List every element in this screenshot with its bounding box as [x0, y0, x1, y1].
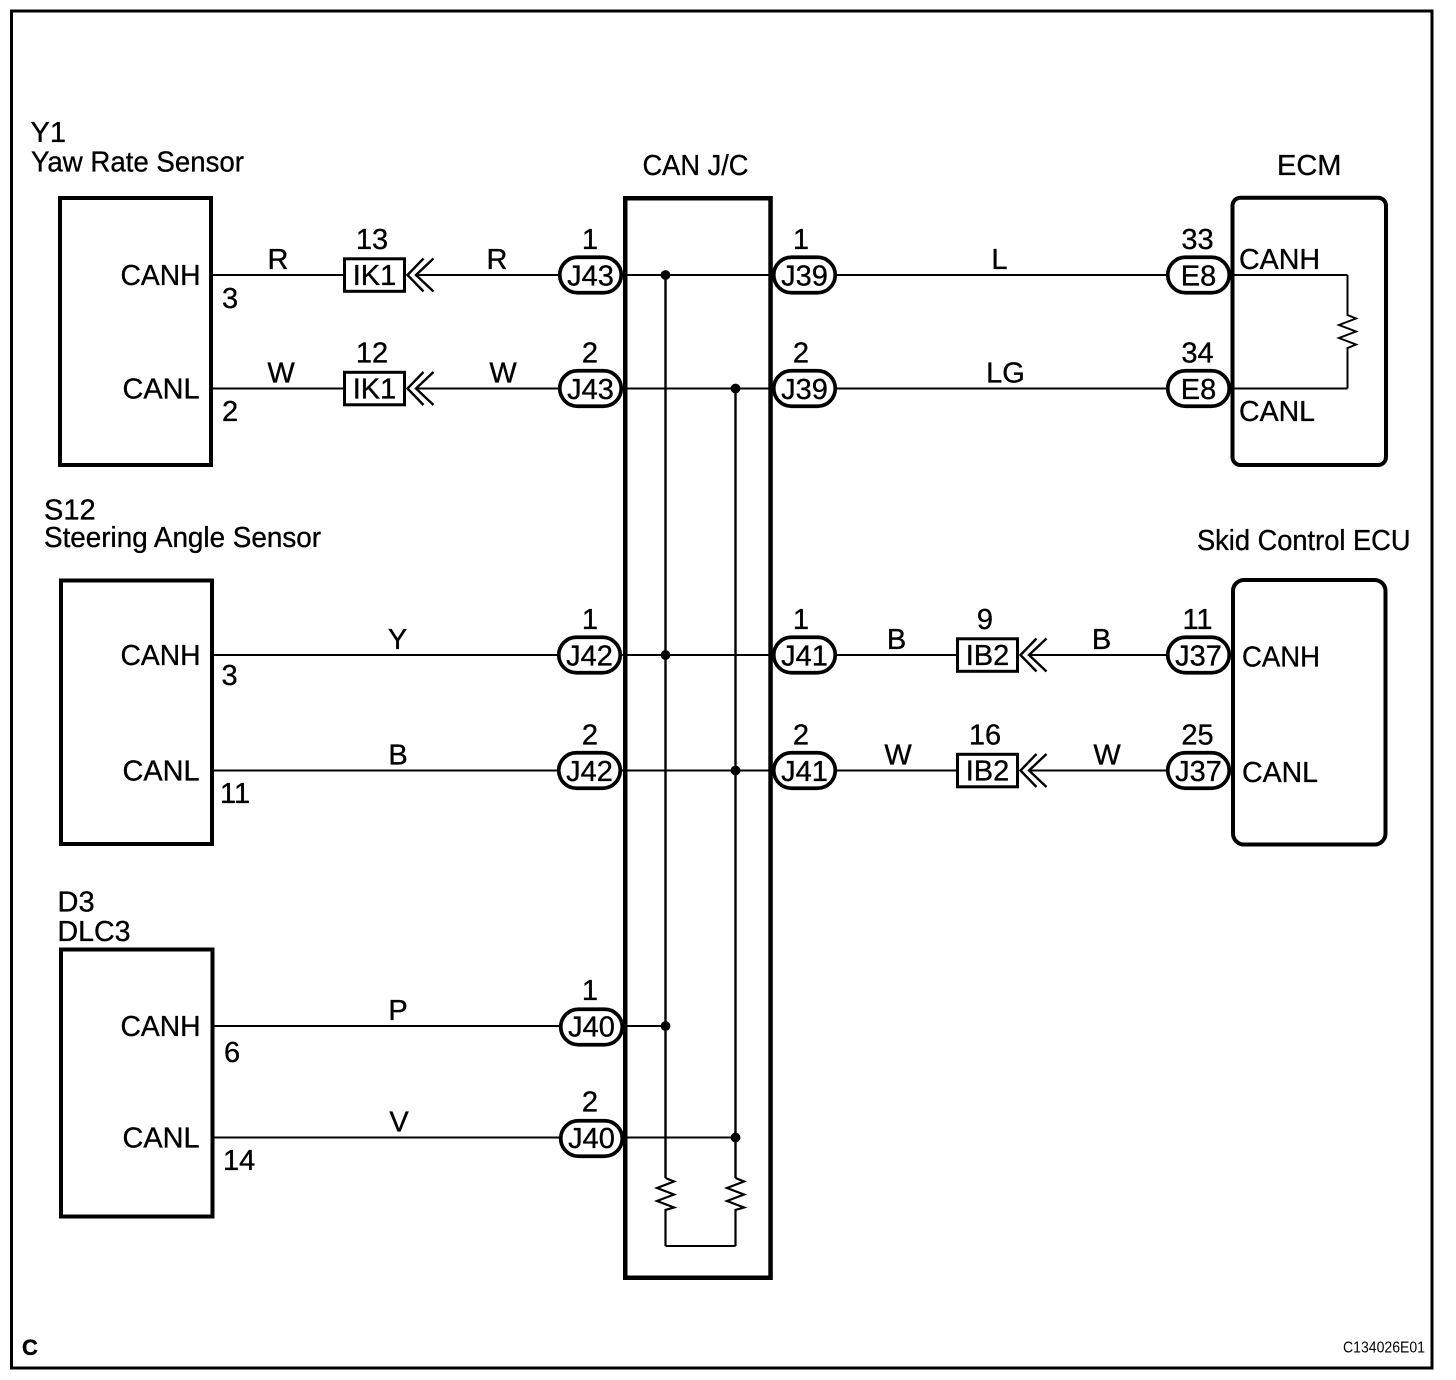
svg-text:IK1: IK1	[353, 260, 397, 292]
svg-text:2: 2	[793, 338, 809, 370]
wire J43 pin2 through CAN J/C to J39 pin2	[623, 388, 773, 390]
svg-text:2: 2	[582, 720, 598, 752]
wire J42 pin1 through CAN J/C to J41 pin1	[622, 654, 772, 656]
connector oval E8 pin34	[1168, 371, 1230, 407]
connector oval J42 pin2	[559, 753, 621, 789]
svg-text:ECM: ECM	[1277, 150, 1341, 182]
svg-text:CANL: CANL	[123, 756, 200, 788]
svg-text:CANH: CANH	[121, 640, 201, 672]
svg-text:Y1: Y1	[31, 117, 66, 149]
svg-text:2: 2	[222, 396, 238, 428]
wire IB2 to J37 pin11 (B)	[1030, 654, 1167, 656]
svg-text:13: 13	[356, 224, 388, 256]
wire D3 CANH to J40 pin1 (P)	[215, 1025, 560, 1027]
wire J43 pin1 through CAN J/C to J39 pin1	[623, 274, 773, 276]
wire J41 pin2 to IB2 pin16 (W)	[837, 770, 957, 772]
svg-text:CANH: CANH	[121, 1011, 201, 1043]
svg-text:3: 3	[222, 283, 238, 315]
svg-text:11: 11	[220, 778, 250, 810]
svg-text:CANL: CANL	[123, 1123, 200, 1155]
svg-text:W: W	[267, 358, 295, 390]
svg-text:J39: J39	[781, 261, 828, 293]
connector oval J39 pin2	[774, 371, 836, 407]
svg-text:16: 16	[969, 720, 1001, 752]
svg-text:IK1: IK1	[353, 374, 397, 406]
terminating resistor inside ECM	[1339, 275, 1356, 389]
svg-text:DLC3: DLC3	[58, 916, 131, 948]
svg-text:C: C	[22, 1335, 38, 1360]
svg-text:Yaw Rate Sensor: Yaw Rate Sensor	[31, 147, 244, 179]
wire J42 pin2 through CAN J/C to J41 pin2	[622, 770, 772, 772]
connector oval J37 pin25	[1168, 753, 1230, 789]
svg-text:9: 9	[977, 604, 993, 636]
svg-text:J40: J40	[568, 1123, 615, 1155]
svg-text:V: V	[389, 1107, 409, 1139]
svg-text:6: 6	[224, 1037, 240, 1069]
wire IK1 to J43 pin2 (W)	[417, 388, 559, 390]
connector oval J37 pin11	[1168, 637, 1230, 673]
svg-text:2: 2	[582, 1087, 598, 1119]
svg-text:B: B	[887, 624, 906, 656]
svg-text:CANH: CANH	[1239, 244, 1320, 276]
svg-text:J37: J37	[1175, 641, 1222, 673]
connector IK1 pin 12 box	[345, 372, 405, 405]
connector oval J40 pin1	[561, 1009, 623, 1045]
svg-text:W: W	[1093, 740, 1121, 772]
svg-text:J41: J41	[781, 641, 828, 673]
connector chevron IK1 row1	[408, 259, 434, 292]
junction dot row3 CANH bus	[661, 650, 671, 660]
connector block Y1 Yaw Rate Sensor	[60, 198, 211, 465]
svg-text:CANL: CANL	[1242, 757, 1318, 789]
wire IK1 to J43 pin1 (R)	[417, 274, 559, 276]
wire Y1 CANL to IK1 (W)	[213, 388, 343, 390]
connector IB2 pin 16 box	[958, 754, 1018, 787]
svg-text:J40: J40	[568, 1012, 615, 1044]
terminating resistor CANL bus	[727, 1178, 744, 1246]
connector oval J42 pin1	[559, 637, 621, 673]
connector oval J41 pin2	[774, 753, 836, 789]
ECU block ECM	[1233, 198, 1387, 465]
connector oval E8 pin33	[1168, 257, 1230, 293]
svg-text:3: 3	[222, 660, 238, 692]
wire IB2 to J37 pin25 (W)	[1030, 770, 1167, 772]
svg-text:12: 12	[356, 338, 388, 370]
svg-text:2: 2	[582, 338, 598, 370]
wire E8 pin33 into ECM	[1230, 274, 1348, 276]
svg-text:J43: J43	[567, 261, 614, 293]
svg-text:B: B	[388, 740, 407, 772]
wire J39 pin1 to E8 pin33 (L)	[837, 274, 1167, 276]
wire D3 CANL to J40 pin2 (V)	[215, 1137, 560, 1139]
svg-text:J42: J42	[566, 756, 613, 788]
svg-text:IB2: IB2	[966, 640, 1010, 672]
svg-text:CANH: CANH	[1242, 642, 1320, 674]
svg-text:W: W	[884, 740, 912, 772]
svg-text:R: R	[487, 244, 508, 276]
svg-text:1: 1	[793, 604, 809, 636]
svg-text:CANH: CANH	[121, 260, 201, 292]
svg-text:R: R	[268, 244, 289, 276]
junction dot row2 CANL bus	[731, 384, 741, 394]
connector chevron IB2 row3	[1021, 639, 1047, 672]
junction connector CAN J/C box	[625, 198, 770, 1278]
svg-text:P: P	[388, 995, 407, 1027]
svg-text:E8: E8	[1181, 261, 1216, 293]
svg-text:33: 33	[1181, 224, 1213, 256]
connector chevron IK1 row2	[408, 372, 434, 405]
wire S12 CANL to J42 pin2 (B)	[214, 770, 558, 772]
svg-text:1: 1	[582, 975, 598, 1007]
wire J40 pin1 to CANH bus	[624, 1025, 666, 1027]
wire S12 CANH to J42 pin1 (Y)	[214, 654, 558, 656]
connector IB2 pin 9 box	[958, 639, 1018, 672]
connector chevron IB2 row4	[1021, 754, 1047, 787]
svg-text:1: 1	[582, 224, 598, 256]
wire Y1 CANH to IK1 (R)	[213, 274, 343, 276]
junction dot row6 CANL bus	[731, 1133, 741, 1143]
connector block S12 Steering Angle Sensor	[61, 581, 212, 845]
junction dot row1 CANH bus	[661, 270, 671, 280]
connector oval J43 pin1	[560, 257, 622, 293]
connector block D3 DLC3	[61, 950, 213, 1217]
svg-text:CAN J/C: CAN J/C	[643, 150, 749, 182]
svg-text:L: L	[991, 244, 1007, 276]
svg-text:IB2: IB2	[966, 756, 1010, 788]
svg-text:J37: J37	[1175, 756, 1222, 788]
svg-text:J39: J39	[781, 374, 828, 406]
connector oval J39 pin1	[774, 257, 836, 293]
svg-text:1: 1	[582, 604, 598, 636]
svg-text:CANL: CANL	[123, 374, 200, 406]
ECU block Skid Control ECU	[1233, 580, 1386, 845]
svg-text:25: 25	[1181, 720, 1213, 752]
junction dot row5 CANH bus	[661, 1021, 671, 1031]
svg-text:Y: Y	[388, 624, 407, 656]
wire J41 pin1 to IB2 pin9 (B)	[837, 654, 957, 656]
svg-text:LG: LG	[986, 358, 1025, 390]
CANL bus line inside CAN J/C	[734, 389, 736, 1179]
svg-text:34: 34	[1181, 338, 1213, 370]
svg-text:J41: J41	[781, 756, 828, 788]
svg-text:D3: D3	[58, 887, 95, 919]
svg-text:J42: J42	[566, 641, 613, 673]
svg-text:Skid Control ECU: Skid Control ECU	[1197, 525, 1411, 557]
wire J40 pin2 to CANL bus	[624, 1137, 736, 1139]
svg-text:C134026E01: C134026E01	[1343, 1340, 1425, 1357]
CANH bus line inside CAN J/C	[664, 275, 666, 1178]
svg-text:J43: J43	[567, 374, 614, 406]
junction dot row4 CANL bus	[731, 766, 741, 776]
svg-text:Steering Angle Sensor: Steering Angle Sensor	[44, 522, 321, 554]
svg-text:11: 11	[1182, 604, 1212, 636]
svg-text:W: W	[489, 358, 517, 390]
svg-text:CANL: CANL	[1239, 396, 1315, 428]
svg-text:1: 1	[793, 224, 809, 256]
wire J39 pin2 to E8 pin34 (LG)	[837, 388, 1167, 390]
svg-text:2: 2	[793, 720, 809, 752]
svg-text:E8: E8	[1181, 374, 1216, 406]
terminating resistor CANH bus	[657, 1178, 674, 1246]
wire E8 pin34 into ECM	[1230, 388, 1348, 390]
connector oval J40 pin2	[561, 1121, 623, 1157]
svg-text:B: B	[1092, 624, 1111, 656]
connector oval J43 pin2	[560, 371, 622, 407]
svg-text:14: 14	[223, 1145, 255, 1177]
connector oval J41 pin1	[774, 637, 836, 673]
connector IK1 pin 13 box	[345, 259, 405, 292]
wire joining bus resistors	[666, 1245, 736, 1247]
